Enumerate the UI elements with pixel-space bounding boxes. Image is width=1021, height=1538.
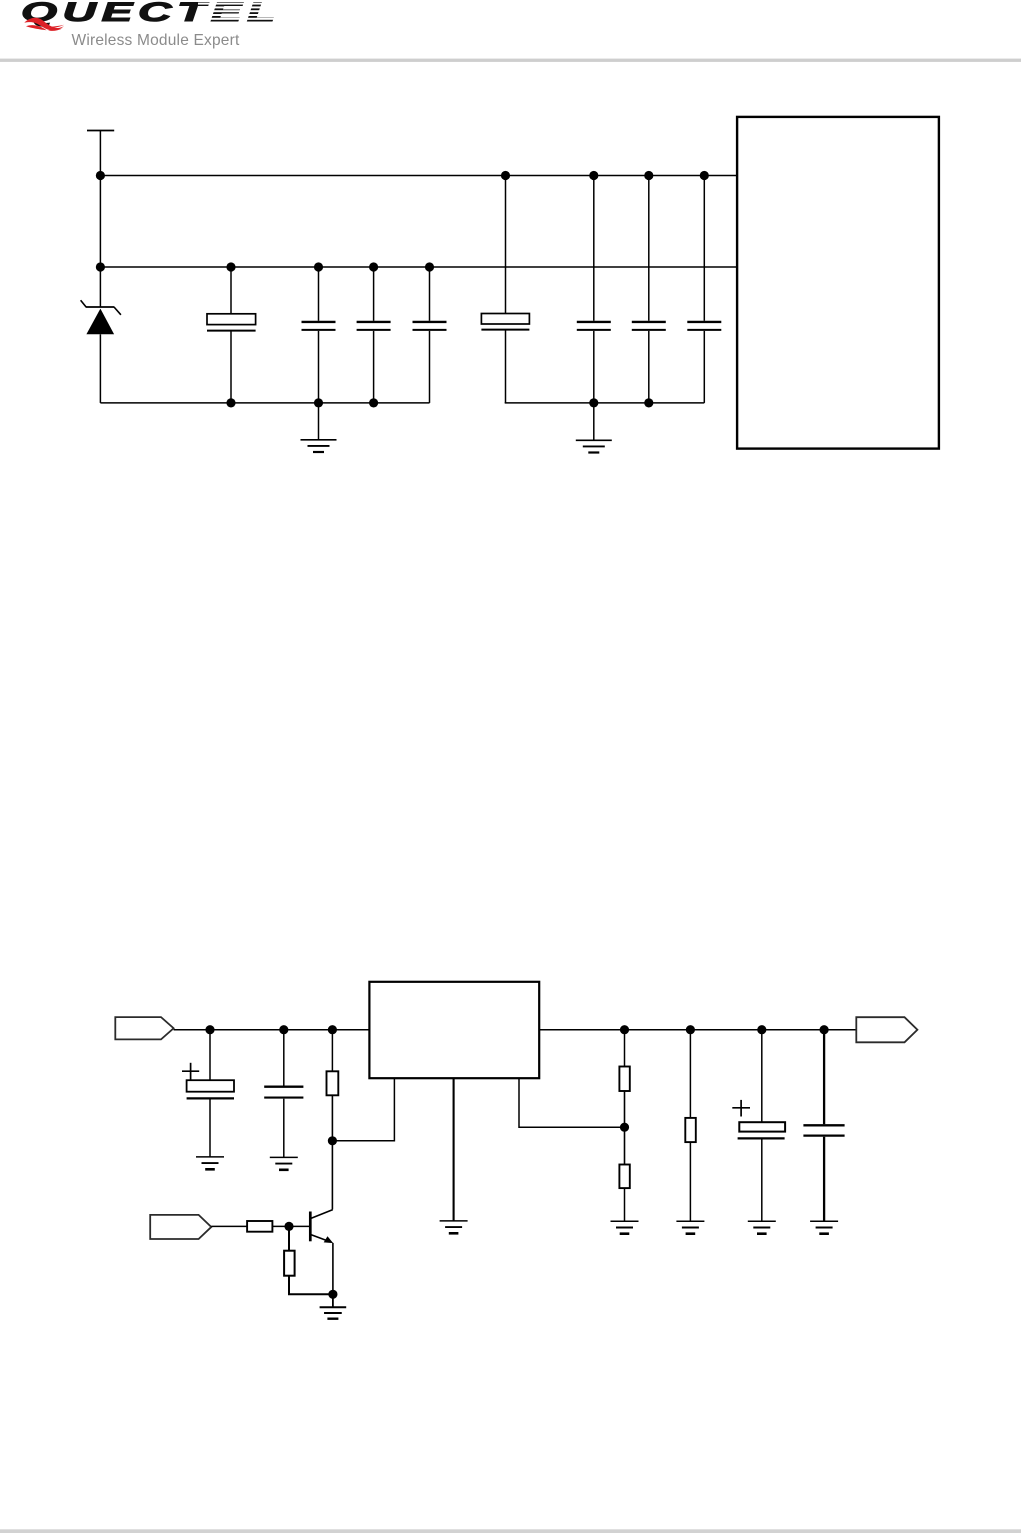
wire adj to regulator: [332, 1079, 394, 1141]
resistor R6: [284, 1226, 333, 1294]
module block U1: [737, 117, 939, 449]
resistor R3: [619, 1165, 629, 1222]
junction dots on lower rail: [96, 262, 434, 271]
ceramic capacitor C4: [413, 267, 447, 403]
junction dot emitter node: [328, 1290, 337, 1299]
wire bottom rail right group: [505, 402, 705, 404]
node VBAT power stub: [87, 131, 114, 308]
junction dots bottom rail left: [226, 398, 378, 407]
junction dots output rail: [620, 1025, 829, 1034]
ground GND3: [196, 1157, 224, 1169]
output net flag VDD: [856, 1017, 917, 1042]
junction dot base node: [284, 1222, 293, 1231]
ground GND9: [810, 1221, 838, 1233]
ceramic capacitor C3: [357, 267, 391, 403]
wire bottom rail left group: [100, 402, 429, 404]
Quectel logo red swoosh: [24, 18, 64, 31]
wire rail VBAT top: [100, 175, 736, 177]
junction dot feedback node: [620, 1123, 629, 1132]
junction dot adj node: [328, 1136, 337, 1145]
electrolytic capacitor C9: [182, 1030, 234, 1157]
svg-text:Wireless Module Expert: Wireless Module Expert: [72, 32, 240, 49]
wire input rail: [174, 1029, 369, 1031]
input net flag VBAT: [115, 1017, 173, 1039]
ceramic capacitor C7: [632, 176, 666, 403]
ceramic capacitor C10: [264, 1030, 303, 1158]
input net flag PWRKEY: [150, 1215, 211, 1239]
ground GND2: [576, 403, 612, 453]
voltage regulator U2: [369, 982, 539, 1078]
resistor R1: [327, 1030, 339, 1210]
transistor Q1: [310, 1210, 333, 1244]
ground GND1: [301, 403, 337, 452]
junction dots bottom rail right: [589, 398, 653, 407]
ceramic capacitor C12: [803, 1030, 844, 1222]
footer rule: [0, 1529, 1021, 1533]
junction dots input rail: [205, 1025, 337, 1034]
ceramic capacitor C6: [577, 176, 611, 403]
electrolytic capacitor C5: [481, 176, 529, 403]
ground GND4: [270, 1157, 298, 1169]
electrolytic capacitor C11: [732, 1030, 785, 1222]
TVS diode D1: [81, 300, 121, 403]
ground GND8: [748, 1221, 776, 1233]
electrolytic capacitor C1: [207, 267, 256, 403]
ground GND10: [320, 1294, 347, 1318]
ground GND5 regulator: [440, 1079, 468, 1233]
header rule: [0, 59, 1021, 62]
junction dots on top rail: [96, 171, 709, 180]
ground GND7: [676, 1221, 704, 1233]
wire base input: [211, 1225, 247, 1227]
wire feedback: [519, 1079, 625, 1127]
resistor R4: [685, 1030, 696, 1222]
wire base to transistor: [289, 1225, 309, 1227]
wire output rail: [540, 1029, 856, 1031]
resistor R2: [619, 1030, 629, 1165]
Quectel logo wordmark: [21, 0, 282, 27]
ceramic capacitor C2: [302, 267, 336, 403]
ground GND6: [611, 1221, 639, 1233]
wire rail VBAT lower: [100, 266, 736, 268]
wire emitter down: [332, 1243, 334, 1294]
ceramic capacitor C8: [687, 176, 721, 403]
resistor R5: [247, 1221, 289, 1232]
